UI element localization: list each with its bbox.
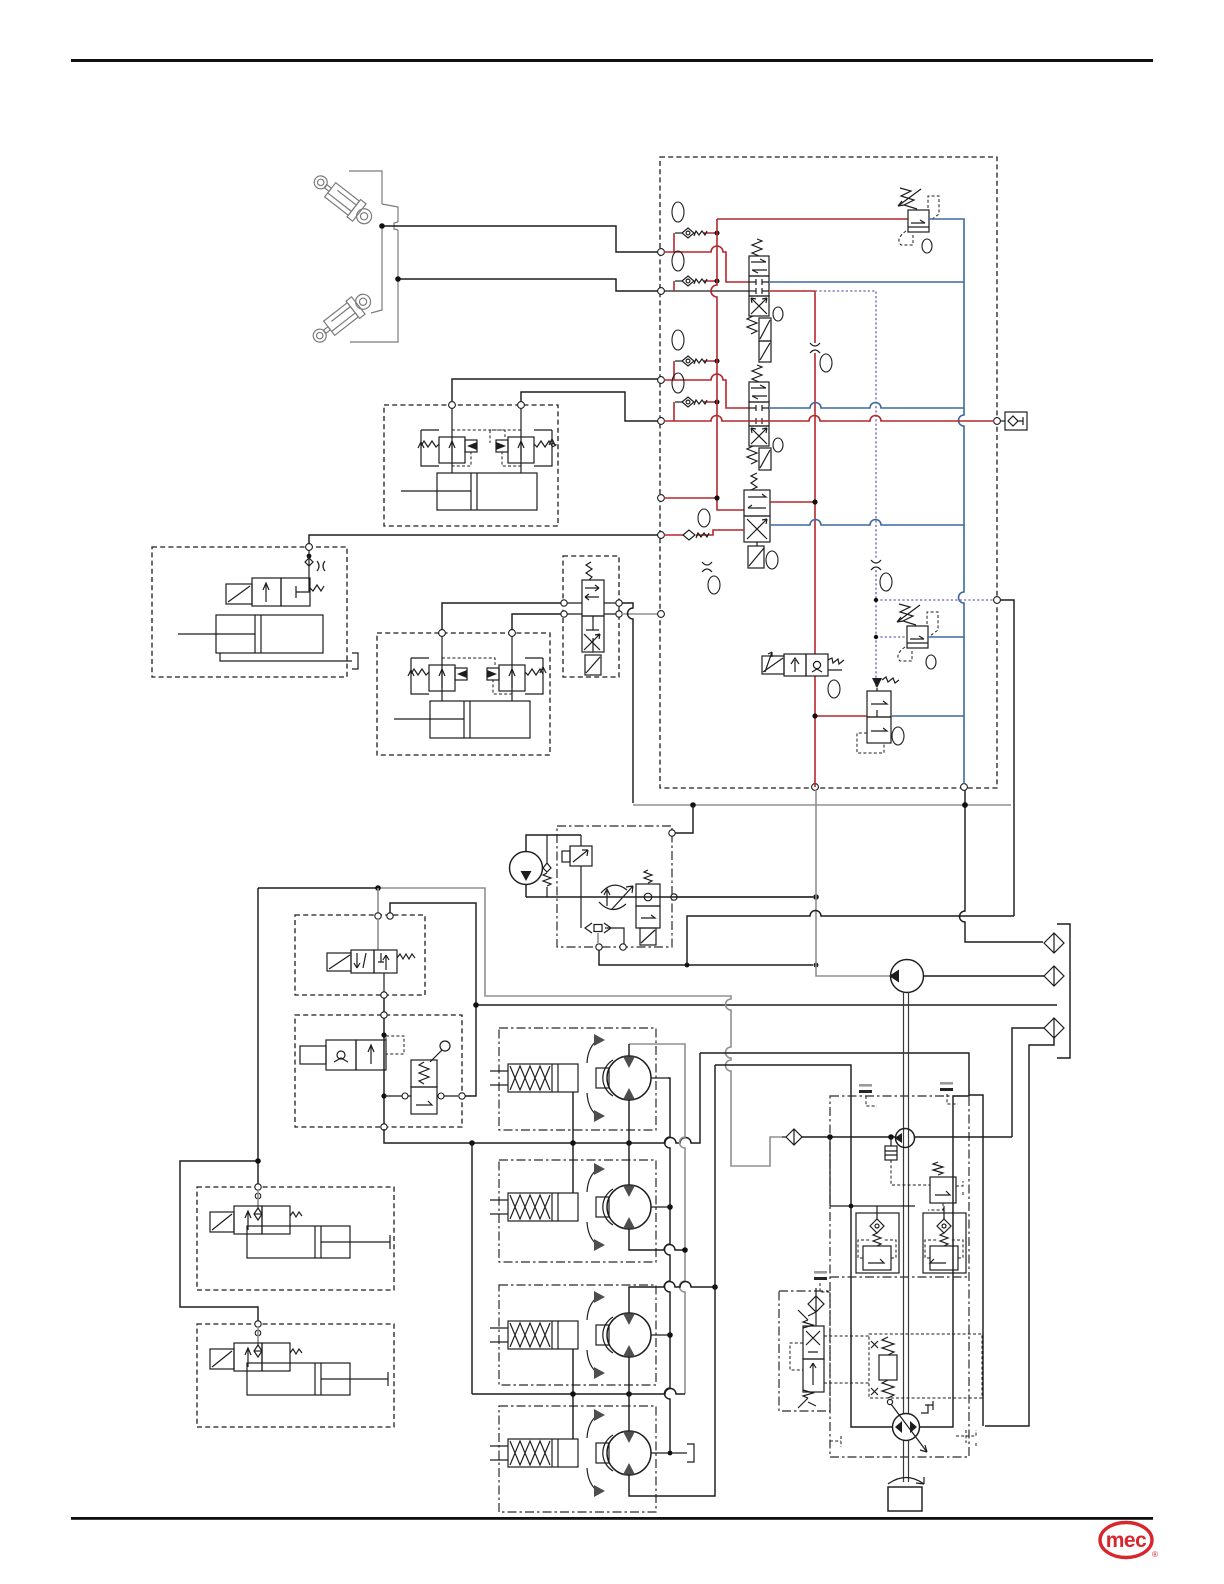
cartridge flow valve (636, 870, 660, 945)
steer cylinder (394, 701, 530, 738)
gray drop from manifold T port (816, 790, 890, 976)
check CV3 (664, 330, 749, 408)
charge filter (782, 1129, 802, 1145)
frame bracket (349, 171, 398, 342)
manifold block boundary (660, 157, 997, 788)
port (509, 630, 516, 637)
brake line trunk to couplers (476, 1004, 1057, 1006)
box: lift cylinder assembly (384, 405, 558, 526)
motor1 links (628, 1100, 630, 1185)
svg-text:mec: mec (1106, 1529, 1147, 1552)
brake pilot links (572, 1092, 574, 1439)
wire to manifold port (309, 535, 658, 544)
check with orifice (305, 550, 325, 578)
pilot to RV2 (876, 636, 907, 638)
junction cyl2 (395, 276, 401, 282)
red supply to relief RV1 (717, 218, 908, 220)
charge line (802, 1136, 1012, 1138)
directional valve DCV1 (747, 239, 783, 362)
blue work line A3 (770, 520, 964, 525)
check CV4 (672, 373, 720, 421)
charge relief (928, 1162, 963, 1210)
trunk T1 brake line (384, 1053, 700, 1143)
MEC logo (1100, 1523, 1158, 1560)
servo control box (869, 1334, 982, 1398)
aux pump to coupling (889, 960, 1044, 993)
pothole cylinder upper (309, 170, 377, 230)
tank return trunk (633, 804, 1011, 806)
pothole cylinder lower (308, 288, 376, 348)
rotation arrow (888, 1477, 924, 1484)
aux pump assembly box (557, 826, 672, 947)
counterbalance valve CB4 (487, 636, 546, 701)
left brake trunk riser (471, 1143, 473, 1394)
crossport relief 2 (923, 1213, 966, 1273)
aux function pump (510, 835, 582, 897)
directional valve DCV3 (744, 473, 778, 569)
charge filter low (808, 1288, 824, 1326)
wire from brake trunk down (180, 888, 258, 1322)
wire cyl1 to manifold port V1 (382, 226, 659, 252)
blue from PV (891, 715, 964, 717)
wire to steer valve B (512, 614, 564, 630)
manifold left ports (658, 249, 665, 256)
brake feed wire (258, 887, 378, 889)
wire cyl2 to manifold port V2 (398, 279, 659, 291)
check CV2 (672, 251, 720, 291)
pilot to port MP (876, 599, 994, 601)
pump shaft (904, 992, 909, 1482)
drive loop B (715, 1065, 893, 1427)
tank line to coupling (960, 790, 1044, 942)
bypass check spring (543, 835, 551, 897)
LS wire to pump box (675, 805, 693, 833)
brake solenoid valve box (295, 915, 425, 995)
wire to manifold V3 (452, 379, 658, 401)
trunk T3 (629, 1282, 715, 1314)
motor4 case plug (668, 1444, 694, 1462)
port (449, 402, 456, 409)
box: platform extension cylinder (152, 547, 347, 677)
red steer feed with check (664, 509, 744, 594)
tow brake release box A (197, 1187, 394, 1290)
relief valve RV2 (897, 604, 938, 669)
drive pump assembly box (830, 1096, 969, 1457)
right return riser (969, 1095, 983, 1426)
blue from RV1 (929, 219, 964, 784)
junction cyl1 (379, 223, 385, 229)
servo piston (871, 1337, 897, 1405)
tow pump valve box (295, 1015, 462, 1127)
red pressure bus (711, 219, 744, 510)
solenoid valve 2/2 (226, 578, 324, 606)
coupling D1 (1044, 933, 1064, 953)
return filter line (687, 911, 1014, 966)
counterbalance valve CB2 (490, 408, 556, 473)
wire to steer valve A (442, 603, 564, 630)
tow brake release box B (197, 1324, 394, 1427)
wire to manifold V4 (521, 392, 658, 421)
blue work line A1 (770, 281, 964, 283)
red main riser (814, 291, 816, 787)
cylinder (401, 473, 537, 510)
coupling D2 (1044, 966, 1064, 986)
footer rule (71, 1517, 1153, 1520)
pressure valve PV (857, 677, 904, 753)
port stub wires (664, 290, 749, 292)
link hooks (830, 1430, 976, 1448)
test coupling M (1000, 412, 1027, 430)
steer directional valve 6/2 (582, 562, 604, 675)
proportional drive valve (790, 1310, 869, 1408)
charge suction from coupling D3 (1012, 1028, 1044, 1137)
box: steer valve (563, 556, 619, 677)
cylinder (178, 615, 358, 669)
coupling D3 (1044, 1018, 1064, 1038)
red to DCV1 (770, 290, 815, 292)
box: steering cylinder assembly (377, 633, 550, 755)
wheel motor box 1 (499, 1028, 656, 1130)
counterbalance valve CB1 (418, 408, 505, 473)
charge check (890, 1137, 892, 1146)
motor3-4 links (628, 1357, 630, 1431)
wire valve to brake trunk (390, 903, 476, 1096)
unloader relief (562, 835, 624, 944)
wire steer valve to manifold LS (622, 613, 658, 615)
directional valve DCV2 (747, 365, 783, 470)
trunk T4 brake line rear (472, 1389, 685, 1394)
mid divider (830, 1276, 969, 1278)
pilot line purple (815, 291, 876, 688)
motor1 case line (665, 1078, 671, 1453)
blue from RV2 (928, 636, 964, 638)
suction line (526, 896, 813, 898)
crossport relief 1 (856, 1213, 899, 1273)
red to PV (815, 715, 867, 717)
red gauge line (664, 416, 994, 422)
pump outlet to tank filter line (676, 896, 813, 898)
ports (561, 600, 567, 606)
red port feed (664, 497, 717, 499)
coupling bracket (1057, 924, 1070, 1058)
charge pump (896, 1129, 915, 1148)
relief valve RV1 (898, 188, 939, 253)
check CV1 (664, 202, 749, 282)
red from bus to DCV3 (770, 501, 815, 503)
flow control (599, 885, 633, 909)
wire steer valve to tank trunk (622, 603, 633, 803)
solenoid cartridge valve LV (762, 652, 844, 698)
svg-text:®: ® (1152, 1550, 1158, 1559)
port (518, 402, 525, 409)
manifold right/bottom ports (994, 418, 1001, 425)
case drain symbol 2 (940, 1082, 958, 1104)
drain port line (1000, 600, 1014, 916)
port (306, 544, 313, 551)
motor4 bottom to loop (629, 1065, 715, 1496)
relief pilot rail (830, 1137, 944, 1219)
variable displacement drive pump (891, 1401, 933, 1452)
case drain symbol 3 (814, 1271, 830, 1292)
hand relief valve (384, 1041, 465, 1114)
trunk T2 (629, 1229, 685, 1250)
wheel motor box 3 (499, 1285, 656, 1385)
port (439, 630, 446, 637)
tow pilot box (779, 1291, 830, 1411)
counterbalance valve CB3 (408, 636, 495, 701)
tow loop from coupling D3 (985, 1038, 1054, 1426)
prime mover (888, 1487, 922, 1511)
header rule (71, 59, 1153, 62)
drive loop A (700, 1053, 969, 1427)
hand pump check valve (300, 1036, 404, 1070)
brake release valve 3/2 (327, 919, 415, 992)
wheel motor box 2 (499, 1160, 656, 1262)
case drain symbol 1 (859, 1084, 877, 1106)
orifice on riser (810, 343, 820, 353)
wheel motor box 4 (499, 1406, 656, 1512)
blue work line A2 (770, 403, 964, 408)
